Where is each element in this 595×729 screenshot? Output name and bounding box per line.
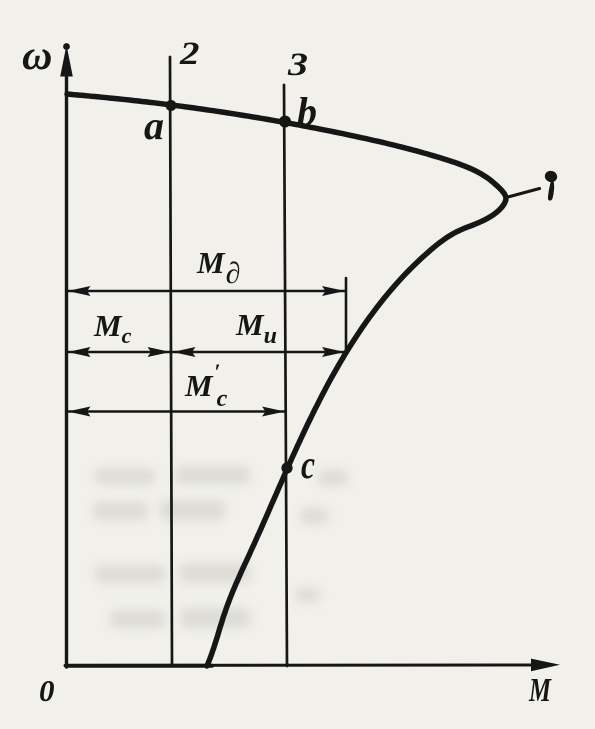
Mc-prime dimension shaft: [68, 410, 284, 413]
Mi dimension shaft: [173, 351, 344, 354]
Mc-prime arrow right head: [262, 407, 285, 417]
x-axis thicker left segment: [66, 664, 212, 668]
Md arrow right head: [322, 286, 345, 296]
bleed-through smudge row 3: [95, 565, 165, 583]
Mc dimension shaft: [68, 351, 170, 354]
Mc-prime arrow left head: [68, 407, 91, 417]
bleed-through smudge row 1: [93, 466, 348, 628]
vertical line 2: [170, 57, 172, 666]
leader line to label 1: [508, 189, 540, 198]
Mi arrow left head: [173, 347, 196, 357]
svg-text:c: c: [301, 442, 315, 487]
Md arrow left head: [68, 286, 91, 296]
svg-text:a: a: [144, 103, 164, 148]
y-axis arrowhead: [60, 45, 73, 77]
svg-text:2: 2: [179, 36, 200, 72]
svg-text:b: b: [297, 89, 317, 134]
Mc arrow left head: [68, 347, 91, 357]
y-axis omega shaft: [65, 60, 68, 667]
tick at right end of Md arrow: [345, 278, 348, 353]
point a: [166, 100, 177, 111]
svg-text:ω: ω: [22, 33, 52, 79]
svg-text:0: 0: [39, 673, 55, 708]
svg-text:М: М: [528, 672, 552, 709]
vertical line 3: [284, 85, 287, 666]
x-axis M shaft: [65, 664, 534, 668]
Mc arrow right head: [148, 347, 171, 357]
bleed-through smudge row 2: [93, 502, 148, 520]
point c: [281, 462, 292, 473]
point b: [279, 116, 291, 128]
motor characteristic curve 1: [67, 94, 506, 666]
svg-text:3: 3: [287, 47, 308, 83]
bleed-through smudge row 4: [110, 610, 165, 628]
Md dimension shaft: [68, 290, 345, 293]
x-axis arrowhead: [531, 659, 560, 672]
label 1 handwritten: [543, 169, 558, 183]
Mi arrow right head: [322, 347, 345, 357]
